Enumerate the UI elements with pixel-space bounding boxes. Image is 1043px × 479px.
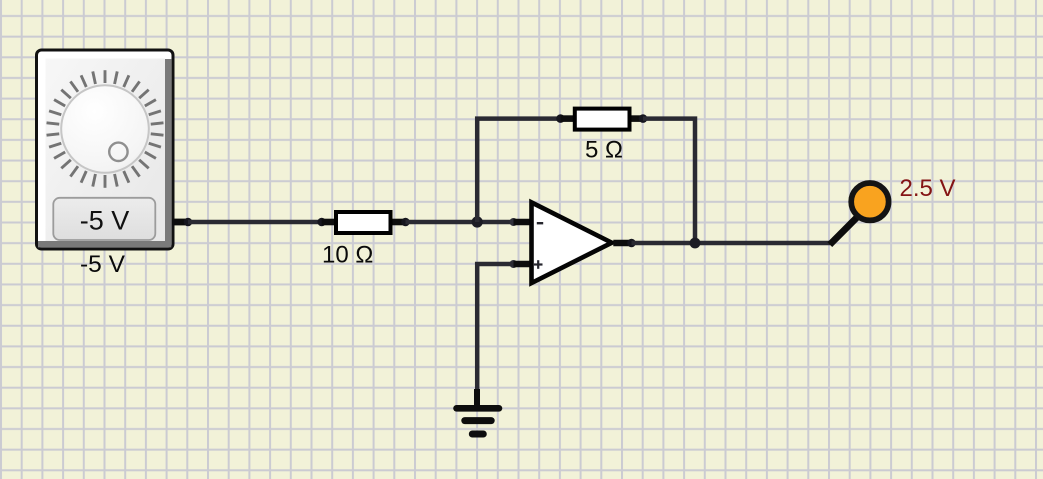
minus sign <box>537 222 543 224</box>
knob tick marks <box>47 70 164 188</box>
plus sign <box>534 263 543 265</box>
non-inverting input stub <box>510 260 518 268</box>
output stub <box>613 240 631 247</box>
op-amp U1 <box>510 202 636 283</box>
wire R2 to output node <box>643 119 695 243</box>
node A junction dot <box>472 216 483 227</box>
resistor R1 10 ohm <box>317 212 409 233</box>
voltage source V1 box <box>37 50 174 249</box>
knob dial <box>61 85 149 173</box>
source display <box>53 198 155 240</box>
ground symbol <box>457 408 500 434</box>
svg-text:2.5 V: 2.5 V <box>900 175 956 202</box>
probe lead diagonal <box>830 216 859 245</box>
triangle body <box>532 202 612 283</box>
source terminal stub <box>172 219 189 226</box>
svg-text:5 Ω: 5 Ω <box>585 137 623 164</box>
resistor R2 5 ohm <box>556 109 647 130</box>
wire non-inverting input to ground <box>477 264 513 391</box>
inverting input stub <box>510 218 518 226</box>
svg-text:-5 V: -5 V <box>80 206 130 236</box>
svg-text:-5 V: -5 V <box>80 251 126 278</box>
ground lead <box>474 389 480 406</box>
output junction dot <box>690 238 701 249</box>
svg-text:10 Ω: 10 Ω <box>322 242 373 269</box>
wire node A up to feedback <box>477 119 560 222</box>
wire R1 to node A <box>406 220 514 225</box>
knob indicator <box>109 143 127 161</box>
wire source to R1 <box>188 220 322 225</box>
wire op-amp output to probe <box>632 241 832 246</box>
probe P1 <box>851 183 888 220</box>
